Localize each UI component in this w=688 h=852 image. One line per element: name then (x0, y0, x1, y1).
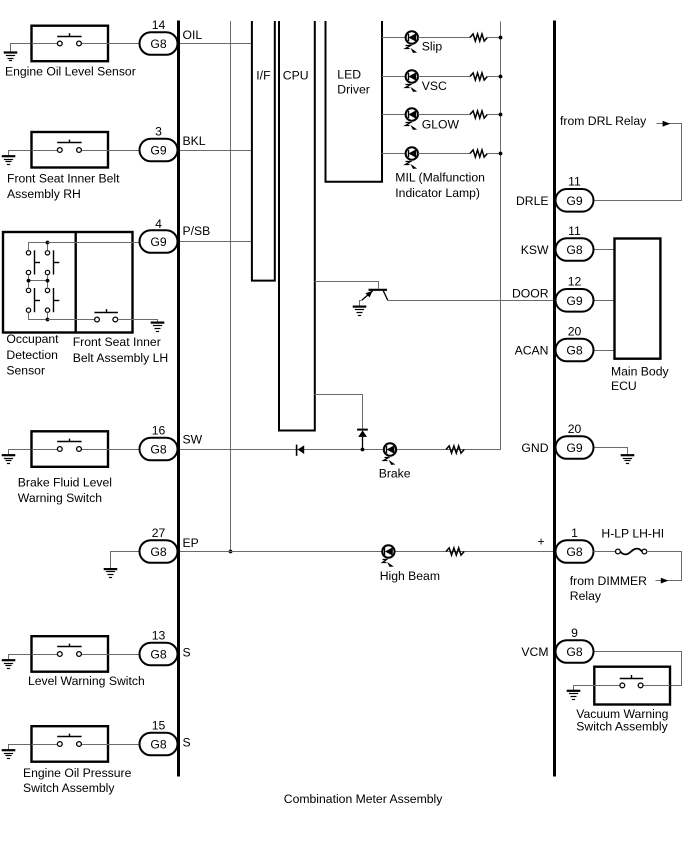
svg-text:Front Seat Inner: Front Seat Inner (73, 335, 161, 349)
LED Driver block (326, 21, 383, 182)
pin number 3 (155, 124, 162, 138)
svg-text:Front Seat Inner Belt: Front Seat Inner Belt (7, 172, 120, 186)
junction dot x500 VSC (499, 75, 503, 79)
connector G8 pin 15 (140, 733, 178, 756)
svg-text:Detection: Detection (6, 348, 58, 362)
LED MIL (406, 147, 418, 169)
ground (Engine Oil Pressure Switch Assembly) (2, 745, 32, 759)
arrow from DRL Relay (663, 121, 671, 127)
svg-text:11: 11 (568, 175, 581, 189)
wire DRLE loop from DRL Relay (595, 124, 682, 201)
svg-text:G8: G8 (150, 738, 166, 752)
connector G8 pin 20 (ACAN) (556, 339, 594, 362)
label Vacuum Warning Switch Assembly (576, 707, 668, 733)
left bus of Combination Meter Assembly (177, 21, 180, 777)
svg-text:I/F: I/F (256, 69, 270, 83)
net label KSW (521, 243, 549, 257)
label LED Driver (337, 68, 370, 97)
svg-text:Occupant: Occupant (6, 332, 59, 346)
wire resistor to bus x500 (487, 37, 500, 39)
LED VSC (406, 70, 418, 92)
wire resistor to bus x500 (487, 76, 500, 78)
svg-text:GND: GND (521, 441, 548, 455)
net label S (13) (183, 646, 191, 660)
connector G8 pin 16 (140, 438, 178, 461)
svg-text:G8: G8 (566, 545, 582, 559)
transistor Q1 (362, 290, 388, 301)
wire switch to connector G8 (108, 43, 140, 45)
svg-text:SW: SW (183, 432, 203, 446)
svg-text:CPU: CPU (283, 69, 309, 83)
pin number 12 (DOOR) (568, 275, 582, 289)
svg-text:4: 4 (155, 217, 162, 231)
svg-text:S: S (183, 646, 191, 660)
svg-text:High Beam: High Beam (380, 569, 440, 583)
svg-text:VSC: VSC (422, 79, 447, 93)
junction dot EP (229, 550, 233, 554)
net label VCM (521, 645, 548, 659)
label Slip (422, 40, 443, 54)
svg-text:Relay: Relay (570, 589, 602, 603)
pin number 9 (VCM) (571, 626, 578, 640)
label I/F (256, 69, 270, 83)
vertical wire x=500 (lamp return) (465, 22, 501, 450)
ground (Vacuum Warning Switch) (567, 686, 620, 700)
svg-text:Switch Assembly: Switch Assembly (576, 719, 668, 733)
svg-text:20: 20 (568, 422, 582, 436)
resistor (GLOW) (470, 111, 487, 118)
wire CPU to diode D2 (315, 395, 363, 429)
svg-text:9: 9 (571, 626, 578, 640)
resistor (Brake) (446, 446, 464, 453)
wire sensor to connector G9 (48, 242, 140, 244)
label Engine Oil Level Sensor (5, 65, 136, 79)
svg-text:16: 16 (152, 423, 166, 437)
wire switch to connector G8 (108, 654, 140, 656)
svg-text:DOOR: DOOR (512, 287, 549, 301)
label CPU (283, 69, 309, 83)
pin number 14 (152, 18, 166, 32)
svg-text:G8: G8 (566, 243, 582, 257)
ground (Brake Fluid Level Warning Switch) (2, 450, 32, 464)
LED High Beam (382, 545, 394, 567)
occupant detection sensor cells (26, 241, 59, 322)
svg-text:27: 27 (152, 526, 166, 540)
svg-text:3: 3 (155, 124, 162, 138)
LED Slip (406, 31, 418, 53)
connector G9 pin 4 (140, 230, 178, 253)
wire P/SB to I/F (180, 241, 252, 243)
net label GND (521, 441, 548, 455)
svg-text:LED: LED (337, 68, 361, 82)
net label S (15) (183, 736, 191, 750)
label from DIMMER Relay (570, 574, 647, 603)
label Front Seat Inner Belt Assembly LH (73, 335, 169, 365)
svg-text:11: 11 (568, 224, 581, 238)
wire resistor to bus x500 (487, 153, 500, 155)
wire SW row (180, 449, 500, 451)
switch box Engine Oil Level Sensor (32, 26, 109, 62)
svg-text:Slip: Slip (422, 40, 443, 54)
CPU block (279, 21, 315, 431)
net label EP (183, 536, 199, 550)
I/F block (252, 21, 275, 281)
svg-text:G9: G9 (566, 294, 582, 308)
switch box Level Warning Switch (32, 636, 109, 672)
switch box Brake Fluid Level Warning Switch (32, 431, 109, 467)
wire LED Driver to LED MIL (382, 153, 406, 155)
wire LED to resistor (418, 114, 470, 116)
wire DOOR to ECU (594, 300, 615, 302)
connector G8 pin 1 (H-LP) (556, 540, 594, 563)
svg-text:ECU: ECU (611, 379, 637, 393)
svg-text:G9: G9 (150, 144, 166, 158)
connector G9 pin 11 (DRLE) (556, 189, 594, 212)
resistor (Slip) (470, 34, 487, 41)
wire OIL to I/F (180, 43, 252, 45)
svg-text:+: + (537, 535, 544, 549)
connector G8 pin 14 (140, 32, 178, 55)
svg-text:20: 20 (568, 324, 582, 338)
svg-text:Engine Oil Level Sensor: Engine Oil Level Sensor (5, 65, 136, 79)
wire collector to DOOR (388, 300, 553, 302)
svg-text:G8: G8 (150, 443, 166, 457)
svg-text:MIL (Malfunction: MIL (Malfunction (395, 170, 485, 184)
pin number 11 (KSW) (568, 224, 581, 238)
svg-text:13: 13 (152, 628, 166, 642)
svg-text:H-LP LH-HI: H-LP LH-HI (601, 526, 664, 540)
label VSC (422, 79, 447, 93)
svg-text:G8: G8 (566, 344, 582, 358)
junction dot x500 Slip (499, 36, 503, 40)
svg-text:G9: G9 (150, 235, 166, 249)
svg-text:Engine Oil Pressure: Engine Oil Pressure (23, 766, 132, 780)
svg-text:from DRL Relay: from DRL Relay (560, 114, 647, 128)
svg-text:EP: EP (183, 536, 199, 550)
label Brake Fluid Level Warning Switch (18, 476, 112, 505)
wire resistor to bus x500 (487, 114, 500, 116)
svg-text:KSW: KSW (521, 243, 549, 257)
LED Brake (384, 443, 397, 465)
diode D2 (pointing up) (357, 430, 368, 450)
connector G8 pin 13 (140, 643, 178, 666)
ground (Front Seat Inner Belt Assembly LH) (118, 320, 165, 332)
net label P/SB (183, 224, 211, 238)
diode D1 (SW row, pointing left) (297, 445, 305, 456)
svg-text:Assembly RH: Assembly RH (7, 187, 81, 201)
title Combination Meter Assembly (284, 792, 443, 806)
connector G9 pin 12 (DOOR) (556, 289, 594, 312)
pin number 27 (152, 526, 166, 540)
wire switch to connector G8 (108, 449, 140, 451)
svg-text:Brake: Brake (379, 467, 411, 481)
svg-text:Level Warning Switch: Level Warning Switch (28, 674, 145, 688)
connector G8 pin 11 (KSW) (556, 238, 594, 261)
net label BKL (183, 134, 206, 148)
connector G9 pin 20 (GND) (556, 436, 594, 459)
connector G8 pin 27 (140, 540, 178, 563)
junction dot x500 MIL (499, 152, 503, 156)
svg-text:S: S (183, 736, 191, 750)
label MIL (395, 170, 485, 200)
pin number 20 (GND) (568, 422, 582, 436)
svg-text:Switch Assembly: Switch Assembly (23, 781, 115, 795)
svg-text:Combination Meter Assembly: Combination Meter Assembly (284, 792, 443, 806)
svg-text:from DIMMER: from DIMMER (570, 574, 647, 588)
ground (EP) (104, 552, 140, 578)
pin number 1 (H-LP) (571, 526, 578, 540)
net label DRLE (516, 194, 549, 208)
pin number 16 (152, 423, 166, 437)
svg-text:ACAN: ACAN (515, 344, 549, 358)
svg-text:P/SB: P/SB (183, 224, 211, 238)
label Main Body ECU (611, 365, 669, 393)
ground (Level Warning Switch) (2, 655, 32, 669)
label GLOW (422, 118, 460, 132)
switch box Vacuum Warning Switch Assembly (594, 667, 670, 705)
svg-text:Driver: Driver (337, 83, 370, 97)
wire BKL to I/F (180, 150, 252, 152)
label Engine Oil Pressure Switch Assembly (23, 766, 132, 795)
wire LED to resistor (418, 76, 470, 78)
svg-text:DRLE: DRLE (516, 194, 549, 208)
label Brake (379, 467, 411, 481)
svg-text:BKL: BKL (183, 134, 206, 148)
occupant detection sensor box (3, 232, 133, 333)
wire CPU to transistor base (315, 282, 379, 289)
connector G8 pin 9 (VCM) (556, 640, 594, 663)
svg-text:12: 12 (568, 275, 582, 289)
pin number 11 (DRLE) (568, 175, 581, 189)
wire LED to resistor (418, 153, 470, 155)
resistor (VSC) (470, 73, 487, 80)
svg-text:G8: G8 (150, 545, 166, 559)
svg-text:Belt Assembly LH: Belt Assembly LH (73, 351, 169, 365)
ground (transistor emitter) (353, 301, 367, 316)
wire breaker to DIMMER loop (647, 552, 682, 581)
svg-text:Brake Fluid Level: Brake Fluid Level (18, 476, 112, 490)
svg-text:G9: G9 (566, 441, 582, 455)
switch box Front Seat Inner Belt Assembly RH (32, 132, 109, 168)
net label DOOR (512, 287, 549, 301)
Main Body ECU box (615, 239, 661, 359)
pin number 20 (ACAN) (568, 324, 582, 338)
svg-text:G9: G9 (566, 194, 582, 208)
LED GLOW (406, 108, 418, 130)
wire H-LP to breaker (594, 551, 616, 553)
wire EP row (180, 551, 553, 553)
pin number 4 (155, 217, 162, 231)
label H-LP LH-HI (601, 526, 664, 540)
wire switch to connector G8 (108, 744, 140, 746)
pin number 15 (152, 718, 166, 732)
wire VCM to Vacuum switch (594, 652, 682, 686)
svg-text:Sensor: Sensor (6, 364, 45, 378)
switch Front Seat Inner Belt Assembly LH (48, 309, 133, 322)
label Level Warning Switch (28, 674, 145, 688)
net label SW (183, 432, 203, 446)
pin number 13 (152, 628, 166, 642)
ground (GND row) (594, 448, 635, 464)
wire KSW to ECU (594, 249, 615, 251)
arrow from DIMMER Relay (661, 578, 669, 584)
svg-text:Main Body: Main Body (611, 365, 669, 379)
junction dot D2/SW (361, 448, 365, 452)
svg-text:Indicator Lamp): Indicator Lamp) (395, 186, 480, 200)
svg-text:VCM: VCM (521, 645, 548, 659)
svg-text:15: 15 (152, 718, 166, 732)
wire LED to resistor (418, 37, 470, 39)
net label OIL (183, 28, 203, 42)
resistor (MIL) (470, 150, 487, 157)
switch box Engine Oil Pressure Switch Assembly (32, 726, 109, 762)
wire ACAN to ECU (594, 350, 615, 352)
svg-text:OIL: OIL (183, 28, 203, 42)
resistor (High Beam) (446, 548, 464, 555)
connector G9 pin 3 (140, 139, 178, 162)
svg-text:GLOW: GLOW (422, 118, 460, 132)
wire LED Driver to LED Slip (382, 37, 406, 39)
circuit breaker H-LP (headlamp) (616, 549, 647, 555)
label + (H-LP positive) (537, 535, 544, 549)
ground (Front Seat Inner Belt Assembly RH) (2, 151, 32, 165)
label Occupant Detection Sensor (6, 332, 59, 378)
junction dot x500 GLOW (499, 113, 503, 117)
right bus of Combination Meter Assembly (553, 21, 556, 777)
svg-text:14: 14 (152, 18, 166, 32)
svg-text:1: 1 (571, 526, 578, 540)
label from DRL Relay (560, 114, 647, 128)
svg-text:G8: G8 (150, 648, 166, 662)
label High Beam (380, 569, 440, 583)
svg-text:G8: G8 (150, 37, 166, 51)
label Front Seat Inner Belt Assembly RH (7, 172, 120, 201)
net label ACAN (515, 344, 549, 358)
wire LED Driver to LED VSC (382, 76, 406, 78)
vertical wire x=230 (EP feed) (230, 21, 232, 552)
svg-text:Warning Switch: Warning Switch (18, 491, 102, 505)
wire switch to connector G9 (108, 150, 140, 152)
wire LED Driver to LED GLOW (382, 114, 406, 116)
ground (Engine Oil Level Sensor) (4, 44, 32, 61)
svg-text:G8: G8 (566, 645, 582, 659)
